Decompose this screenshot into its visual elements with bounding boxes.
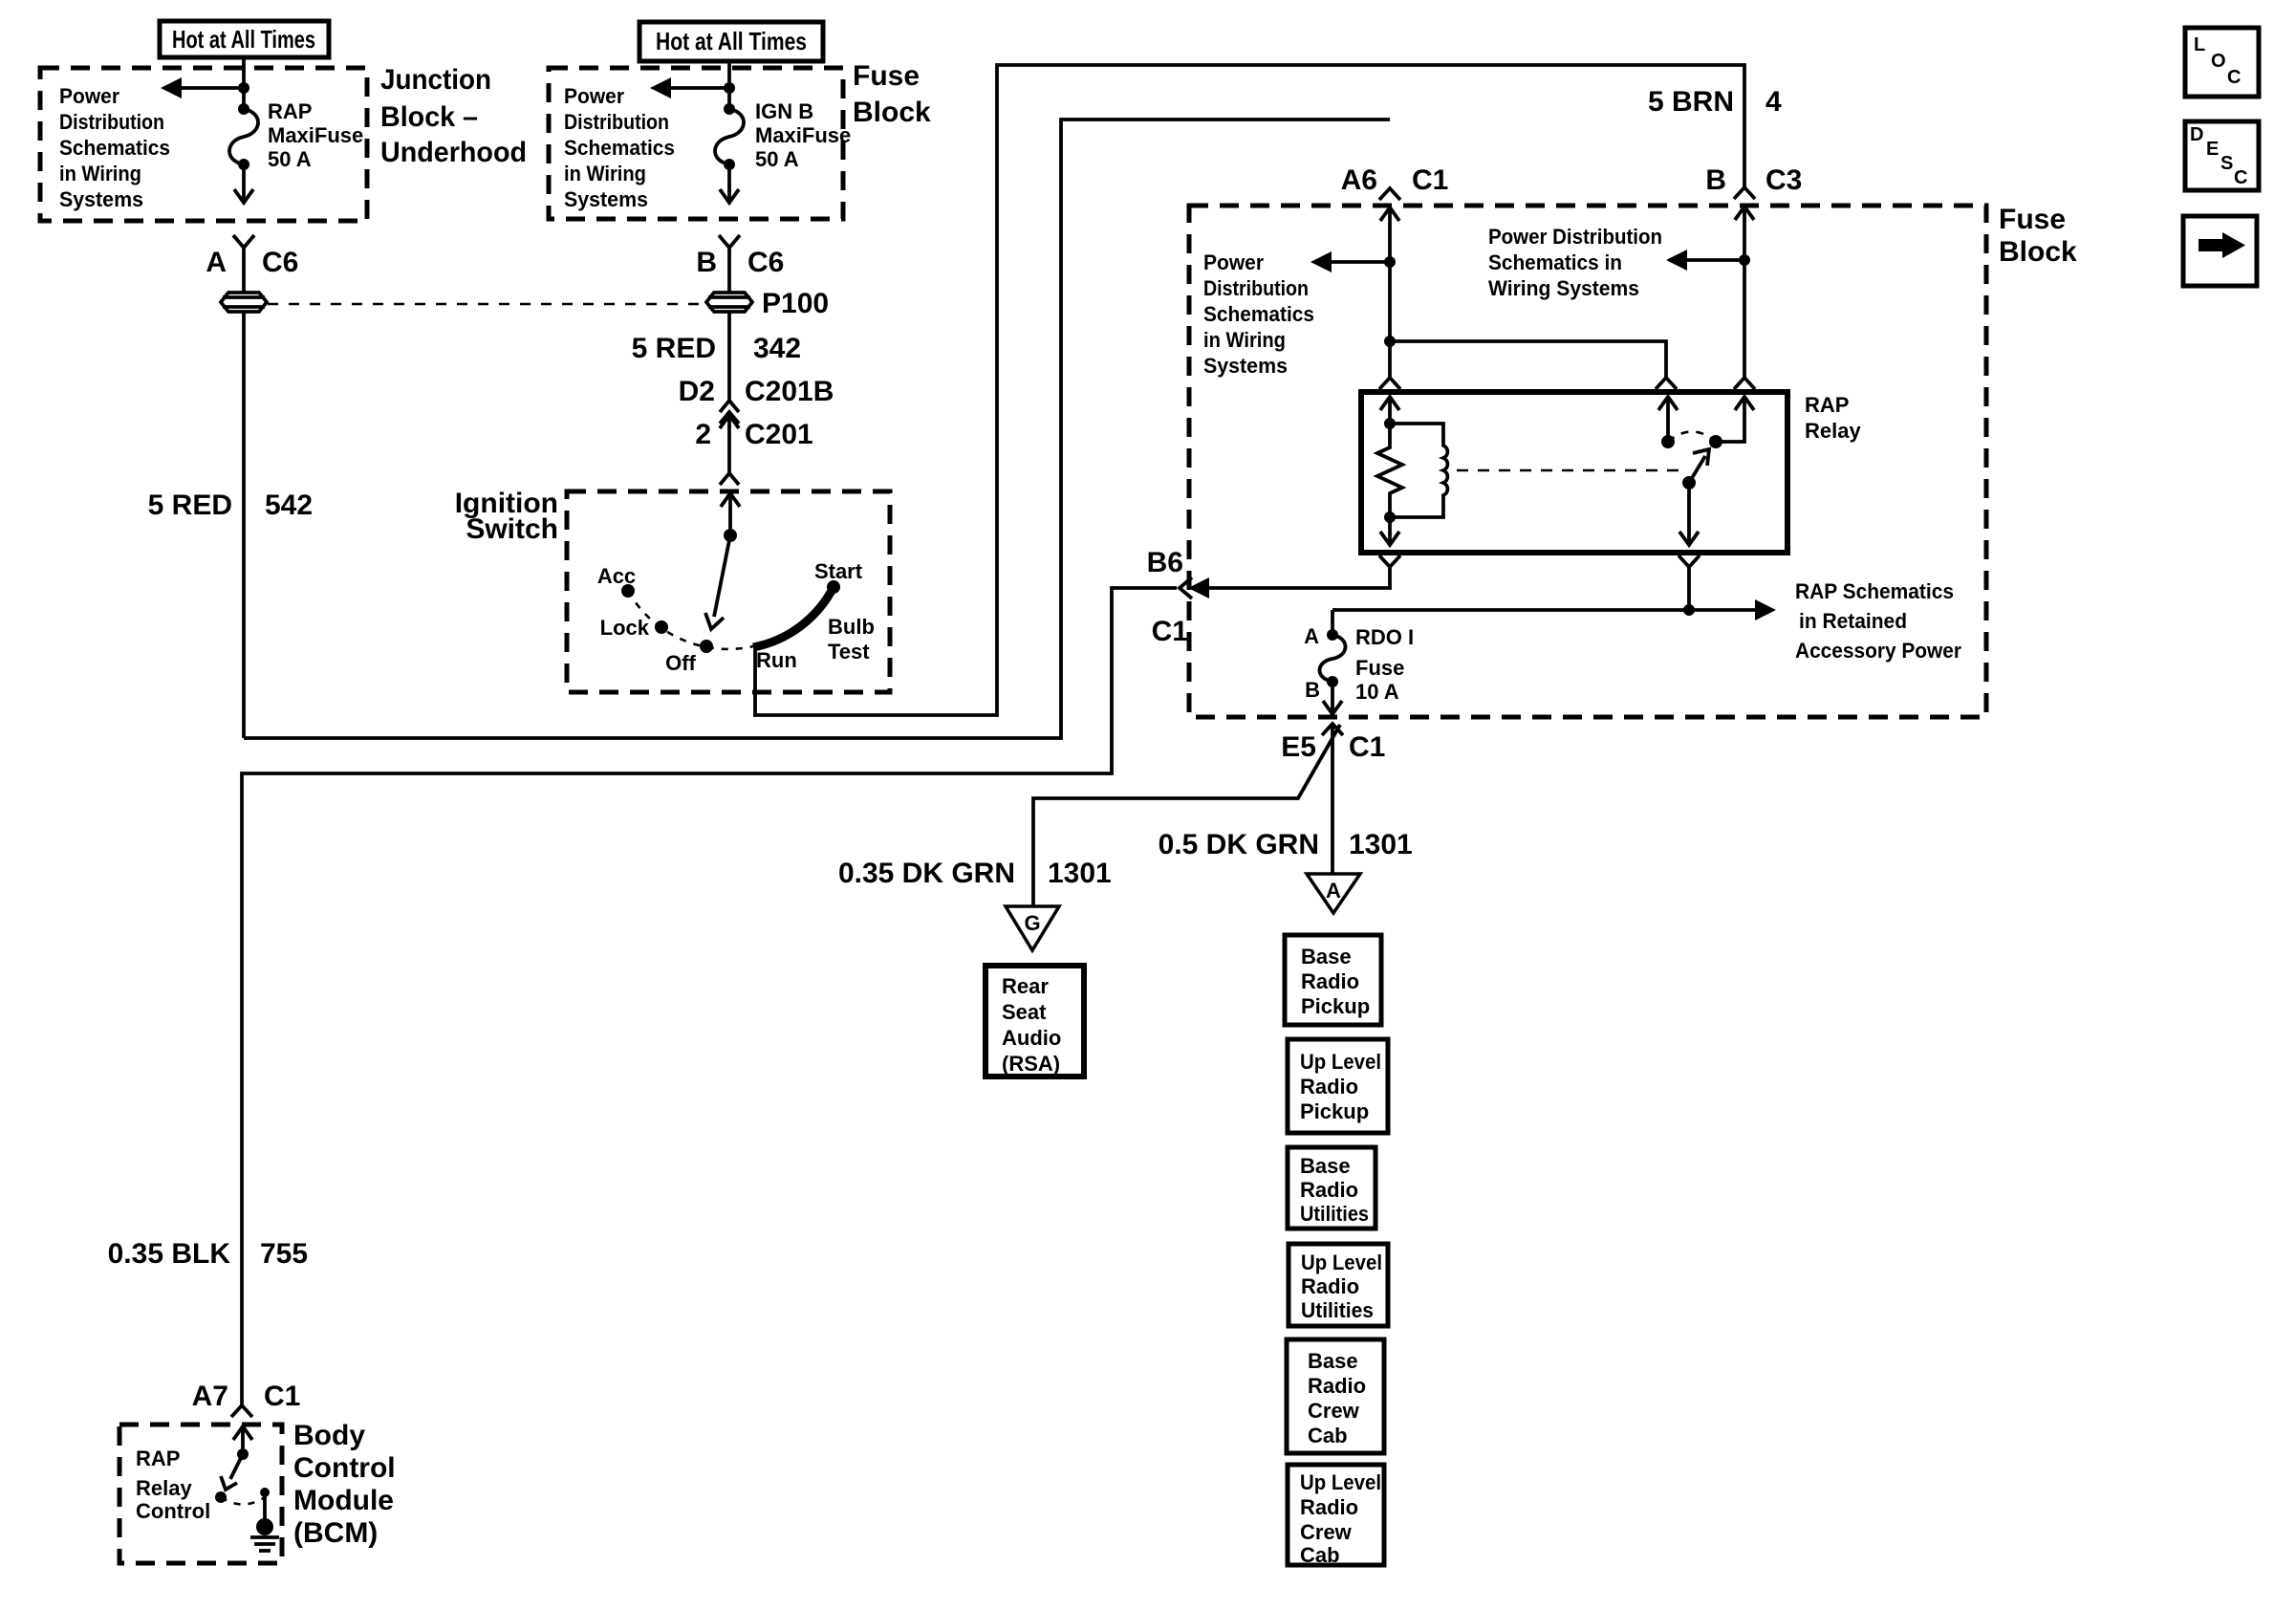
relay switch arm with arrow: [1682, 449, 1709, 490]
relay coil pin up arrow (left): [1380, 397, 1399, 424]
wire 5 RED 542 down the left side: [242, 313, 246, 738]
wire NO contact to relay top (right switch pin): [1716, 397, 1754, 442]
svg-text:Test: Test: [828, 640, 870, 664]
svg-text:Distribution: Distribution: [1203, 276, 1309, 300]
dashed actuation link coil to switch: [1457, 469, 1680, 472]
svg-text:Distribution: Distribution: [59, 110, 164, 134]
wire from B branch down to relay: [1743, 260, 1746, 378]
svg-text:Crew: Crew: [1300, 1520, 1353, 1544]
ignition switch pivot and arm: [705, 529, 737, 629]
svg-text:Utilities: Utilities: [1300, 1202, 1369, 1226]
svg-text:C1: C1: [264, 1381, 300, 1412]
svg-text:Block: Block: [1999, 236, 2077, 268]
svg-text:Module: Module: [293, 1485, 394, 1516]
component box: Base Radio Utilities: [1288, 1147, 1375, 1229]
label: D2 C201B: [679, 376, 834, 407]
arrow to RAP schematics in retained accessory power: [1332, 599, 1776, 620]
svg-text:in Wiring: in Wiring: [1203, 328, 1286, 352]
wire from left column to fuse block A6 feed: [244, 120, 1390, 738]
svg-text:Schematics in: Schematics in: [1488, 250, 1622, 274]
label: 0.35 DK GRN 1301: [838, 858, 1112, 889]
svg-text:5 RED: 5 RED: [148, 490, 232, 521]
ground (BCM): [250, 1518, 279, 1551]
svg-text:C1: C1: [1412, 164, 1448, 196]
BCM switch lower contact: [215, 1491, 227, 1503]
svg-text:C201: C201: [745, 419, 813, 450]
svg-text:Audio: Audio: [1002, 1026, 1061, 1050]
ignition contact Off: [665, 640, 713, 675]
svg-text:Crew: Crew: [1308, 1399, 1360, 1423]
arrow at B6 (relay control output): [1188, 577, 1209, 598]
svg-text:E: E: [2206, 139, 2219, 160]
label: 0.5 DK GRN 1301: [1159, 829, 1413, 860]
svg-text:50 A: 50 A: [268, 147, 312, 171]
svg-text:Radio: Radio: [1300, 1075, 1358, 1099]
svg-text:Hot at All Times: Hot at All Times: [172, 25, 315, 54]
wire with up arrow into ignition switch: [721, 493, 740, 535]
svg-text:A: A: [206, 247, 227, 278]
fuse block (main) label: [1999, 204, 2077, 268]
svg-text:Accessory Power: Accessory Power: [1795, 639, 1961, 663]
ignition switch dashed box: [567, 491, 890, 692]
svg-text:Run: Run: [756, 648, 797, 672]
svg-text:P100: P100: [762, 288, 829, 319]
svg-text:Systems: Systems: [1203, 354, 1288, 378]
reference box LOC: [2185, 28, 2259, 97]
label: Ignition Switch: [455, 488, 558, 545]
svg-text:Base: Base: [1301, 945, 1352, 968]
svg-text:C: C: [2227, 67, 2241, 88]
note text: Power Distribution Schematics in Wiring Systems (junction block): [59, 84, 170, 211]
BCM dashed box: [119, 1425, 282, 1563]
svg-text:542: 542: [265, 490, 313, 521]
relay switch NO contact: [1709, 435, 1722, 448]
svg-text:C3: C3: [1765, 164, 1802, 196]
svg-text:Relay: Relay: [1805, 419, 1861, 443]
label: 0.35 BLK 755: [108, 1238, 308, 1270]
svg-text:Body: Body: [293, 1420, 365, 1451]
label: RAP Relay Control: [136, 1447, 210, 1523]
wire with down arrow to fuse block edge: [720, 164, 739, 203]
wire with up arrow from C201 toward ignition switch: [720, 415, 739, 475]
svg-text:Lock: Lock: [600, 616, 650, 640]
wire from hot feed into fuse block: [727, 61, 731, 109]
connector B6 C1: [1147, 547, 1192, 647]
svg-text:Underhood: Underhood: [380, 137, 527, 168]
svg-text:IGN B: IGN B: [755, 99, 813, 123]
svg-text:Distribution: Distribution: [564, 110, 669, 134]
connector chevrons at relay top pins: [1379, 378, 1755, 389]
svg-text:Cab: Cab: [1300, 1543, 1340, 1567]
svg-text:Radio: Radio: [1308, 1374, 1366, 1398]
connector A C6 (junction block output): [206, 235, 298, 278]
wire from A C6 to grommet: [242, 248, 246, 292]
wire 5 RED 342: [727, 313, 731, 401]
ignition contact Start: [814, 559, 863, 594]
wire from hot feed into junction block: [242, 57, 246, 109]
label: RAP Relay: [1805, 393, 1861, 443]
branch wire to rear seat audio (diagonal from E5): [1033, 725, 1340, 906]
svg-text:B: B: [696, 247, 717, 278]
svg-text:Wiring Systems: Wiring Systems: [1488, 276, 1639, 300]
svg-text:Junction: Junction: [380, 64, 491, 96]
svg-text:Pickup: Pickup: [1300, 1099, 1369, 1123]
arrow to power distribution schematics (A6 branch): [1310, 251, 1396, 272]
svg-text:Block: Block: [853, 97, 931, 128]
fuse block (main) dashed box: [1189, 206, 1986, 717]
relay coil pin down arrow (left): [1380, 517, 1399, 545]
arrow to power distribution schematics (B branch): [1666, 250, 1750, 271]
dashed arc between relay contacts: [1668, 432, 1716, 443]
wire with up arrow into BCM: [233, 1426, 252, 1454]
label: RAP MaxiFuse 50 A: [268, 99, 363, 171]
svg-text:Acc: Acc: [597, 564, 636, 588]
component box: Base Radio Crew Cab: [1287, 1339, 1384, 1453]
svg-text:MaxiFuse: MaxiFuse: [268, 123, 363, 147]
connector A6 C1 (fuse block main): [1341, 164, 1449, 200]
node: A6 branch to relay switch feed: [1384, 262, 1666, 378]
component box: Up Level Radio Crew Cab: [1288, 1465, 1384, 1567]
reference box arrow: [2183, 216, 2257, 286]
node: RAP schematics branch: [1683, 604, 1695, 616]
labels: pins A and B of RDO fuse: [1304, 624, 1320, 702]
component box: Up Level Radio Utilities: [1289, 1244, 1388, 1326]
component box: Base Radio Pickup: [1285, 935, 1381, 1025]
label: 5 RED 342: [632, 333, 801, 364]
label: IGN B MaxiFuse 50 A: [755, 99, 851, 171]
svg-text:2: 2: [695, 419, 711, 450]
svg-text:10 A: 10 A: [1355, 680, 1399, 704]
dashed arc BCM switch contacts: [221, 1497, 265, 1505]
svg-text:C1: C1: [1349, 731, 1385, 763]
svg-text:Fuse: Fuse: [853, 60, 920, 92]
svg-text:5 BRN: 5 BRN: [1648, 86, 1734, 118]
svg-text:755: 755: [260, 1238, 308, 1270]
wire NC contact to relay top (left switch pin): [1658, 397, 1678, 442]
fuse RDO I 10 A: [1319, 629, 1345, 687]
note text: Power Distribution Schematics in Wiring Systems (A6 branch): [1203, 250, 1314, 378]
svg-text:RAP: RAP: [1805, 393, 1849, 417]
svg-text:Schematics: Schematics: [59, 136, 170, 160]
fuse block (upper) dashed box: [549, 68, 843, 219]
svg-text:Block –: Block –: [380, 101, 478, 133]
svg-text:Bulb: Bulb: [828, 615, 875, 639]
relay switch NC contact: [1661, 435, 1675, 448]
fuse block (upper) label: [853, 60, 931, 128]
arrow to power distribution schematics (fuse block upper): [650, 77, 735, 98]
connector B C3 (fuse block main): [1705, 164, 1802, 199]
svg-text:RAP: RAP: [268, 99, 312, 123]
svg-text:Schematics: Schematics: [564, 136, 675, 160]
wire with up arrow into fuse block at B: [1735, 207, 1754, 260]
svg-text:0.35 DK GRN: 0.35 DK GRN: [838, 858, 1015, 889]
svg-text:A: A: [1304, 624, 1319, 648]
node: relay coil top: [1384, 418, 1396, 429]
svg-text:1301: 1301: [1349, 829, 1413, 860]
svg-text:Radio: Radio: [1301, 969, 1359, 993]
svg-text:Radio: Radio: [1301, 1274, 1359, 1298]
svg-text:Utilities: Utilities: [1301, 1298, 1374, 1322]
wire with up arrow into fuse block at A6: [1380, 207, 1399, 262]
relay common pin down arrow: [1679, 483, 1699, 545]
svg-text:C6: C6: [262, 247, 298, 278]
svg-text:A7: A7: [192, 1381, 228, 1412]
connector E5 C1: [1281, 724, 1385, 763]
wire from B6 to BCM (0.35 BLK 755): [242, 588, 1177, 1405]
note text: Power Distribution Schematics in Wiring Systems (B branch): [1488, 225, 1662, 300]
svg-text:(RSA): (RSA): [1002, 1052, 1060, 1076]
BCM ground contact stub: [260, 1488, 270, 1522]
thick arc Run to Start (bulb test zone): [753, 587, 834, 647]
grommet P100 (left): [221, 293, 267, 312]
splice triangle G: [1006, 906, 1059, 950]
connector chevrons at relay bottom pins: [1379, 555, 1700, 567]
connector A7 C1 (BCM input): [192, 1381, 301, 1417]
svg-text:Systems: Systems: [59, 187, 143, 211]
junction block dashed box: [40, 68, 367, 221]
svg-text:0.5 DK GRN: 0.5 DK GRN: [1159, 829, 1319, 860]
wire from relay coil pin to B6 connector: [1201, 567, 1390, 588]
svg-text:Radio: Radio: [1300, 1495, 1358, 1519]
connector B C6 (fuse block output): [696, 235, 784, 278]
svg-text:RAP Schematics: RAP Schematics: [1795, 579, 1954, 603]
svg-text:Up Level: Up Level: [1301, 1251, 1382, 1274]
relay RAP Relay box: [1361, 392, 1787, 553]
svg-text:Pickup: Pickup: [1301, 994, 1370, 1018]
wire with down arrow to fuse block edge at E5: [1323, 682, 1342, 714]
arrow to power distribution schematics (junction block): [161, 77, 249, 98]
svg-text:1301: 1301: [1048, 858, 1112, 889]
node: relay coil bottom: [1384, 511, 1396, 523]
component box: Up Level Radio Pickup: [1288, 1039, 1388, 1133]
wire from B C6 to grommet: [727, 248, 731, 292]
svg-text:C: C: [2234, 167, 2247, 188]
svg-text:A: A: [1326, 879, 1341, 903]
label: 5 RED 542: [148, 490, 313, 521]
ignition contact Acc: [597, 564, 636, 598]
label: 2 C201: [695, 419, 812, 450]
coil (relay): [1390, 424, 1447, 517]
svg-text:0.35 BLK: 0.35 BLK: [108, 1238, 231, 1270]
svg-text:Switch: Switch: [466, 513, 558, 545]
svg-text:D2: D2: [679, 376, 715, 407]
reference box DESC: [2185, 121, 2259, 190]
svg-text:Power: Power: [1203, 250, 1264, 274]
svg-text:A6: A6: [1341, 164, 1377, 196]
label: Body Control Module (BCM): [293, 1420, 396, 1549]
svg-text:Fuse: Fuse: [1999, 204, 2066, 235]
svg-text:C201B: C201B: [745, 376, 834, 407]
wire from Run contact to fuse block B C3 feed: [755, 65, 1744, 715]
svg-text:Base: Base: [1300, 1154, 1351, 1178]
svg-text:B: B: [1705, 164, 1726, 196]
svg-text:Base: Base: [1308, 1349, 1358, 1373]
label box: Hot at All Times (middle): [639, 22, 823, 61]
splice triangle A: [1307, 874, 1360, 913]
svg-text:MaxiFuse: MaxiFuse: [755, 123, 851, 147]
wire from relay common to RDO fuse and RAP schematics: [1687, 567, 1691, 610]
svg-text:Schematics: Schematics: [1203, 302, 1314, 326]
svg-text:Start: Start: [814, 559, 863, 583]
svg-text:Fuse: Fuse: [1355, 656, 1404, 680]
svg-text:50 A: 50 A: [755, 147, 799, 171]
svg-text:C1: C1: [1152, 616, 1188, 647]
svg-text:5 RED: 5 RED: [632, 333, 716, 364]
fuse IGN B MaxiFuse 50 A: [715, 103, 744, 170]
svg-text:in Wiring: in Wiring: [564, 162, 646, 185]
svg-text:S: S: [2220, 153, 2233, 174]
connector at ignition switch entry: [720, 473, 739, 485]
svg-text:C6: C6: [747, 247, 784, 278]
svg-text:D: D: [2190, 124, 2203, 145]
svg-text:Off: Off: [665, 651, 696, 675]
svg-text:in Wiring: in Wiring: [59, 162, 141, 185]
resistor (relay): [1377, 424, 1402, 517]
svg-text:Power: Power: [564, 84, 624, 108]
svg-text:G: G: [1024, 911, 1040, 935]
label: RDO I Fuse 10 A: [1355, 625, 1414, 704]
svg-text:RAP: RAP: [136, 1447, 180, 1470]
svg-text:Radio: Radio: [1300, 1178, 1358, 1202]
svg-text:Control: Control: [136, 1499, 210, 1523]
svg-text:Rear: Rear: [1002, 974, 1049, 998]
svg-text:Power: Power: [59, 84, 119, 108]
wire 0.5 DK GRN 1301 down to splice A: [1331, 724, 1334, 874]
connector C201 (inline, double chevron): [720, 401, 739, 424]
svg-text:in Retained: in Retained: [1799, 609, 1907, 633]
svg-text:L: L: [2194, 34, 2205, 55]
svg-text:Relay: Relay: [136, 1476, 192, 1500]
wire from branch corner down to RDO fuse: [1331, 610, 1334, 635]
svg-text:(BCM): (BCM): [293, 1517, 378, 1549]
junction block label text: [380, 64, 527, 168]
fuse RAP MaxiFuse 50 A: [229, 103, 258, 170]
grommet P100 (right): [706, 293, 752, 312]
svg-text:4: 4: [1765, 86, 1782, 118]
svg-text:Power Distribution: Power Distribution: [1488, 225, 1662, 249]
svg-text:B: B: [1305, 678, 1320, 702]
svg-text:E5: E5: [1281, 731, 1316, 763]
svg-text:342: 342: [753, 333, 801, 364]
svg-text:B6: B6: [1147, 547, 1183, 578]
label box: Hot at All Times (left): [160, 21, 329, 57]
label: 5 BRN 4: [1648, 86, 1782, 118]
svg-text:RDO I: RDO I: [1355, 625, 1414, 649]
svg-text:Hot at All Times: Hot at All Times: [656, 27, 807, 55]
svg-text:Up Level: Up Level: [1300, 1050, 1381, 1074]
dashed detent arc Acc-Lock-Off-Run: [628, 591, 753, 649]
svg-text:Cab: Cab: [1308, 1424, 1348, 1447]
svg-text:Up Level: Up Level: [1300, 1470, 1381, 1494]
label: Bulb Test: [828, 615, 875, 664]
svg-text:Control: Control: [293, 1452, 396, 1484]
wire with down arrow to junction block edge: [234, 164, 253, 203]
svg-text:Seat: Seat: [1002, 1000, 1047, 1024]
component box: Rear Seat Audio (RSA): [986, 966, 1084, 1077]
svg-text:O: O: [2211, 51, 2226, 72]
svg-text:Systems: Systems: [564, 187, 648, 211]
BCM switch pivot and arm: [221, 1448, 249, 1490]
dashed pass-through line between grommets: [268, 303, 707, 306]
ignition contact Lock: [600, 616, 668, 640]
note text: RAP Schematics in Retained Accessory Power: [1795, 579, 1961, 663]
note text: Power Distribution Schematics in Wiring Systems (fuse block upper): [564, 84, 675, 211]
